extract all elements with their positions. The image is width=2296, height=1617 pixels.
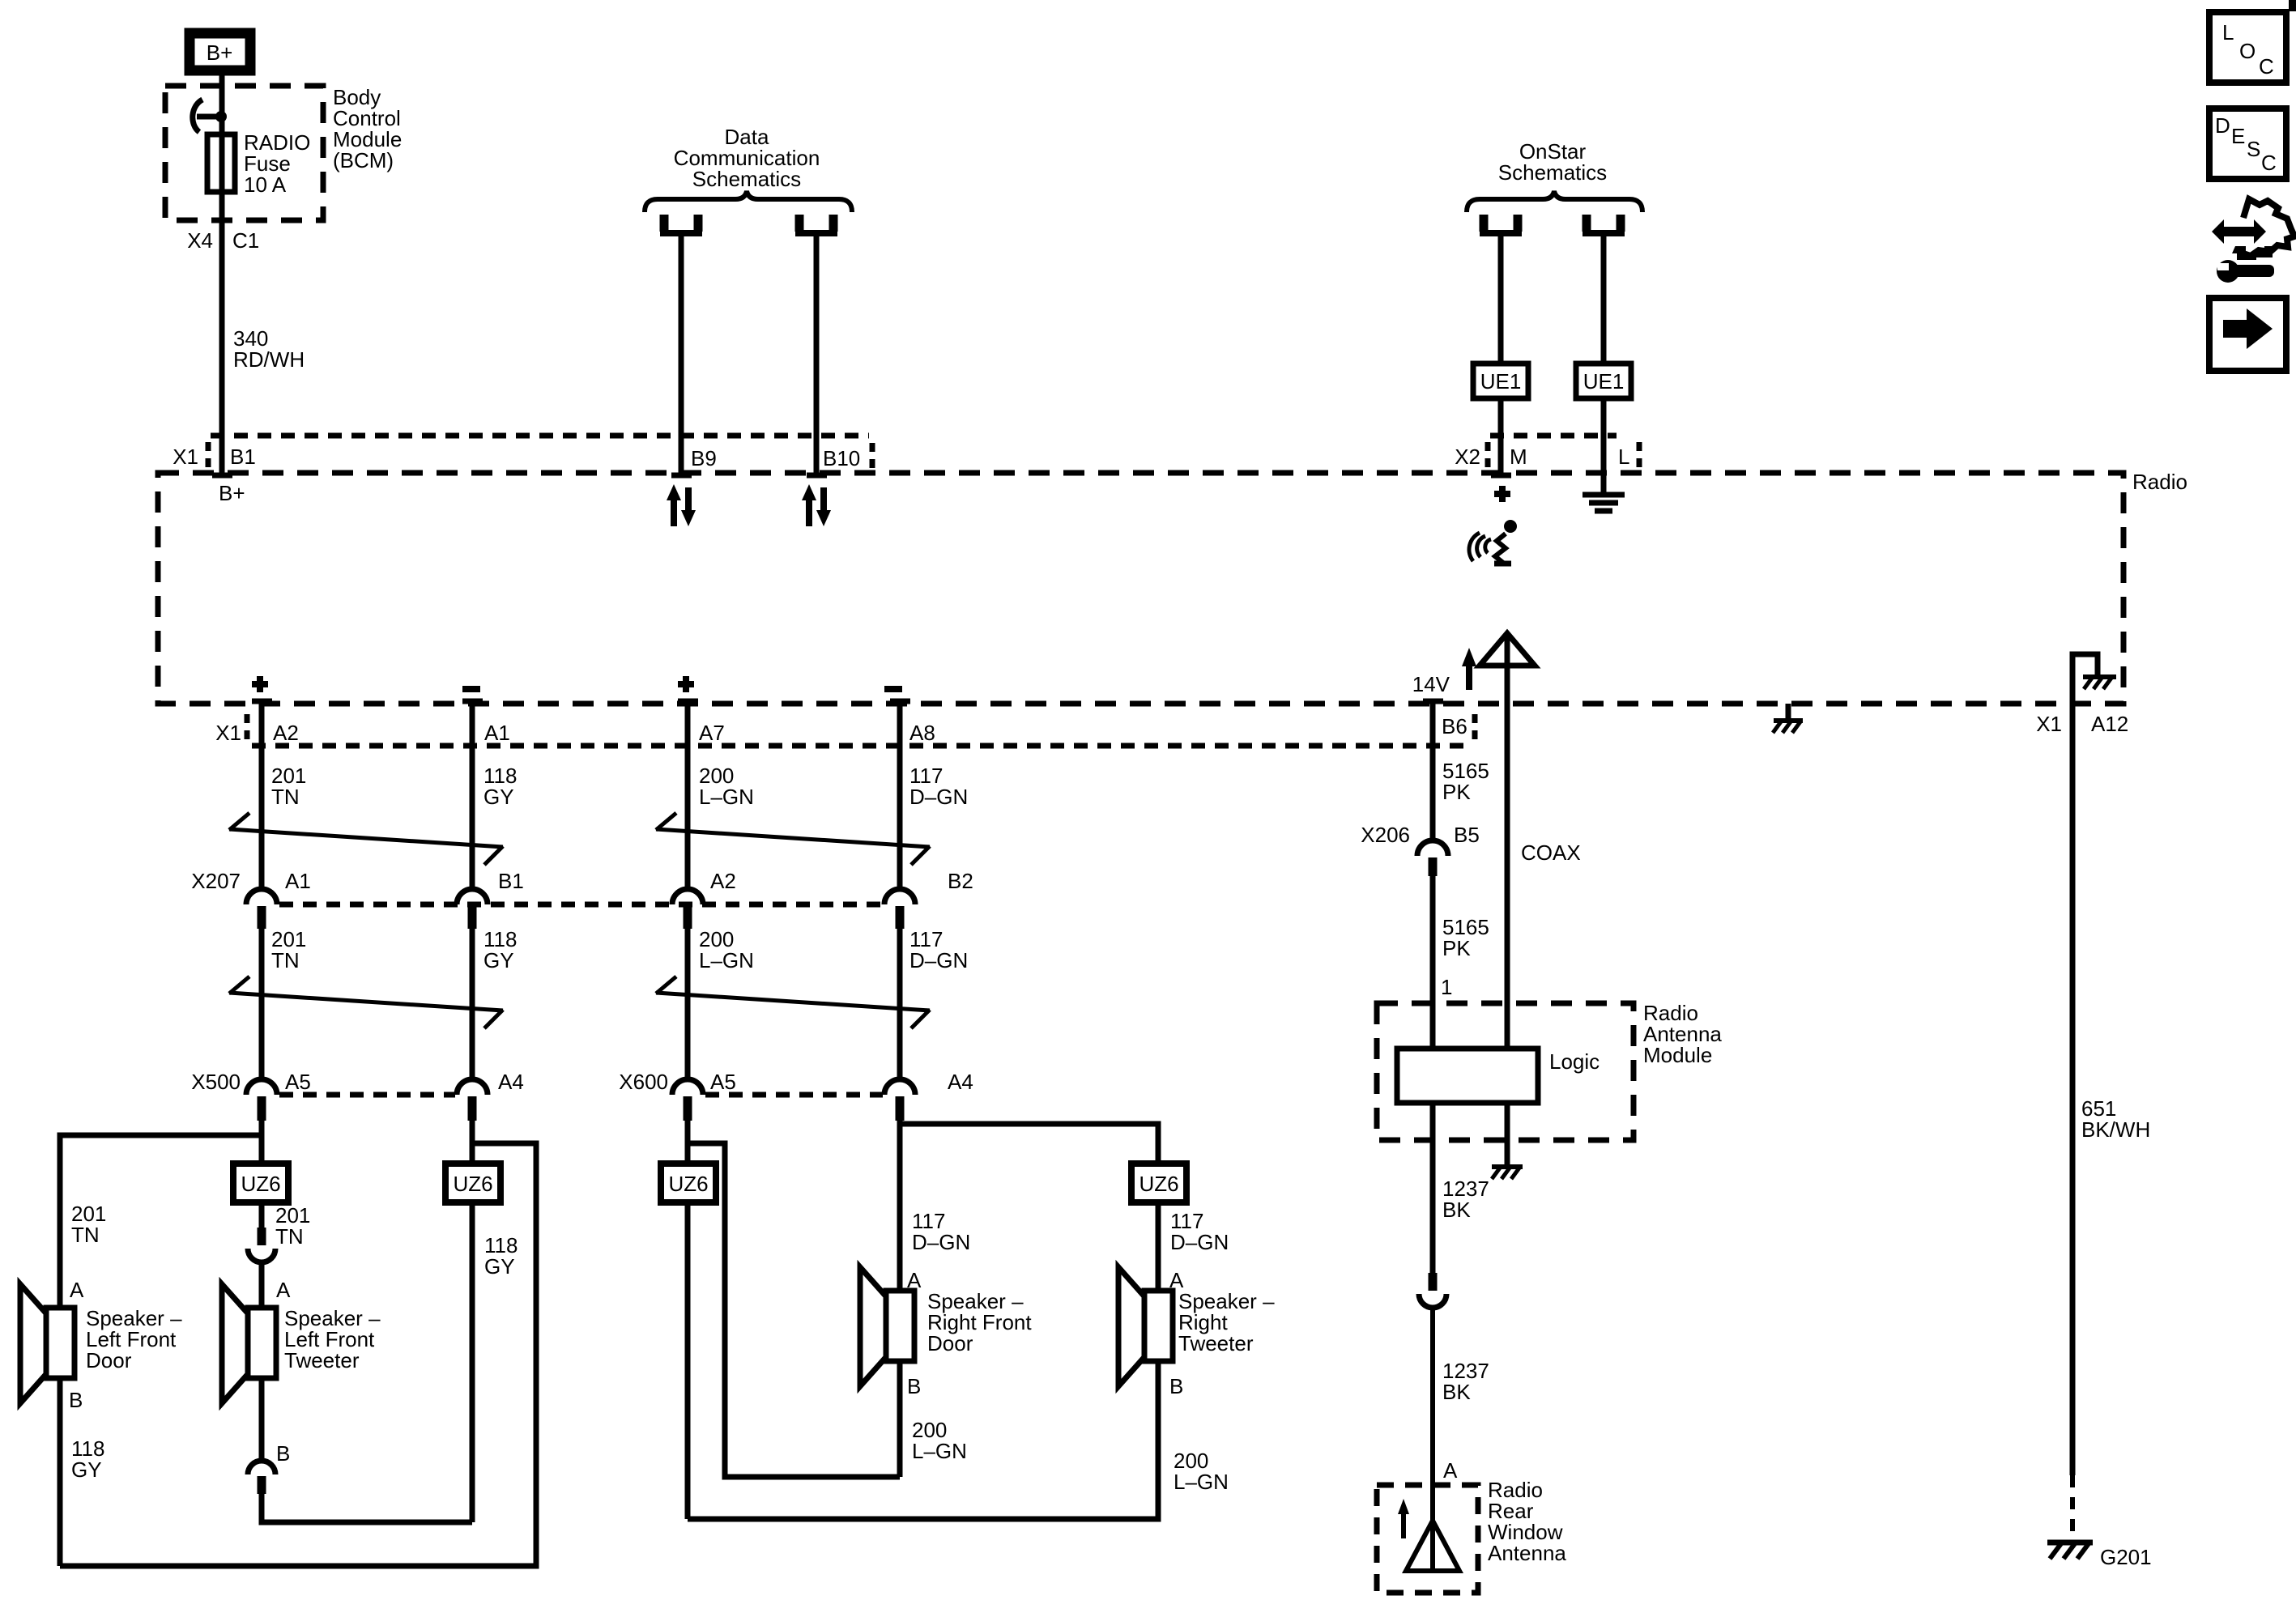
connector X600 comb line (705, 1092, 883, 1098)
wire 5165 PK lower (1430, 876, 1436, 1049)
svg-text:RD/WH: RD/WH (233, 347, 305, 372)
COAX wire from antenna to antenna module logic (1505, 636, 1510, 1049)
connector bump X500-A4 (457, 1079, 488, 1121)
svg-text:D–GN: D–GN (909, 948, 968, 972)
svg-text:Door: Door (927, 1331, 973, 1355)
svg-text:Radio: Radio (2132, 470, 2187, 494)
wire label 200 L-GN row 2 (699, 927, 754, 972)
connector bump X500-A5 (246, 1079, 277, 1121)
inline connector at tweeter B (248, 1461, 275, 1494)
wire UE1 to ground L (1601, 398, 1607, 492)
label RADIO Fuse 10 A (244, 130, 310, 197)
wire 651 BK/WH from A12 (2070, 666, 2076, 1475)
signal arrow in rear window antenna (1398, 1499, 1409, 1538)
BCM internal switch hook (193, 100, 227, 132)
Body Control Module (BCM) dashed box (165, 86, 323, 220)
svg-text:L–GN: L–GN (699, 948, 754, 972)
svg-text:B1: B1 (498, 869, 524, 893)
svg-text:D–GN: D–GN (1170, 1230, 1229, 1254)
svg-text:L: L (1618, 445, 1629, 469)
minus polarity at A8 (884, 686, 902, 692)
bidirectional data arrows at B9 (667, 484, 696, 526)
label Speaker - Left Front Tweeter (284, 1306, 381, 1372)
twisted pair mark right pair row 2 (656, 977, 930, 1028)
wire label 5165 PK upper (1442, 759, 1489, 804)
svg-text:A7: A7 (699, 721, 725, 745)
Radio Antenna Module dashed box (1377, 1003, 1634, 1140)
svg-text:E: E (2231, 124, 2245, 148)
wire label 201 TN (271, 764, 306, 809)
svg-text:A1: A1 (484, 721, 510, 745)
svg-text:X600: X600 (619, 1070, 668, 1094)
label Data Communication Schematics (674, 125, 820, 191)
connector X207 comb line (279, 902, 883, 908)
svg-text:Antenna: Antenna (1488, 1541, 1566, 1565)
wire connector to tweeter (259, 1262, 265, 1308)
svg-text:UZ6: UZ6 (241, 1172, 280, 1196)
connector bump X207-B1 (457, 889, 488, 929)
twisted pair mark left pair row 2 (229, 977, 503, 1028)
connector comb line X1 bottom row (A2 A1 A7 A8 B6) (252, 743, 1470, 749)
svg-text:L–GN: L–GN (699, 785, 754, 809)
Radio dashed box (158, 473, 2123, 704)
svg-text:L–GN: L–GN (912, 1439, 967, 1463)
svg-text:UZ6: UZ6 (668, 1172, 708, 1196)
connector label X1 A12 (2036, 712, 2128, 736)
svg-text:X1: X1 (215, 721, 241, 745)
svg-text:D–GN: D–GN (912, 1230, 970, 1254)
svg-text:(BCM): (BCM) (333, 148, 394, 172)
wire tweeter to B connector (259, 1378, 265, 1461)
pin B6 tee foot (1423, 699, 1443, 704)
svg-text:B: B (907, 1374, 921, 1398)
svg-text:A: A (276, 1278, 291, 1302)
svg-text:X1: X1 (173, 445, 198, 469)
dotted tick right end of X1 bottom comb (1472, 714, 1478, 740)
svg-text:B2: B2 (948, 869, 973, 893)
wire label 200 L-GN (699, 764, 754, 809)
svg-text:M: M (1510, 445, 1527, 469)
svg-text:GY: GY (483, 785, 514, 809)
svg-text:1: 1 (1441, 975, 1452, 999)
antenna symbol inside radio (1480, 633, 1535, 666)
twisted pair mark left pair row 1 (229, 813, 503, 865)
pin B10 tee foot (807, 473, 827, 479)
wire OnStar ground to UE1 (1601, 235, 1607, 364)
wire 118 GY from A4 through UZ6 (470, 1121, 475, 1522)
svg-text:C: C (2259, 54, 2274, 79)
pin M tee foot (1491, 473, 1511, 479)
svg-text:B: B (1169, 1374, 1183, 1398)
wire 200 L-GN from A5 through UZ6 to right tweeter return (685, 1121, 691, 1519)
connector comb line X2 (M L) (1490, 433, 1617, 439)
wire 1237 BK upper (1430, 1103, 1436, 1273)
svg-text:GY: GY (483, 948, 514, 972)
14V supply arrow inside radio (1412, 648, 1476, 696)
antenna element symbol (1406, 1521, 1459, 1571)
svg-text:A: A (70, 1278, 84, 1302)
connector comb line X1 top row (B1 B9 B10) (211, 433, 869, 439)
svg-text:B5: B5 (1454, 823, 1480, 847)
svg-text:Tweeter: Tweeter (1178, 1331, 1254, 1355)
wire 1237 BK lower (1430, 1308, 1435, 1524)
wire branch 117 D-GN to right tweeter (900, 1124, 1158, 1164)
DESC legend box (2209, 109, 2286, 179)
option box UZ6 on right tweeter feed (1131, 1164, 1186, 1202)
wire label 200 L-GN at right door (912, 1418, 967, 1463)
wire UE1 to radio M (1498, 398, 1504, 473)
svg-text:X207: X207 (191, 869, 241, 893)
svg-text:A5: A5 (285, 1070, 311, 1094)
svg-text:B: B (276, 1441, 290, 1466)
wire 5165 PK from B6 (1430, 704, 1436, 841)
svg-text:A8: A8 (909, 721, 935, 745)
svg-text:14V: 14V (1412, 672, 1450, 696)
off-page connector bracket OnStar L (1582, 215, 1625, 233)
wire 201 TN below X207 (259, 929, 265, 1080)
svg-text:BK: BK (1442, 1380, 1471, 1404)
svg-text:A12: A12 (2091, 712, 2128, 736)
wire UZ6 to inline connector (259, 1202, 265, 1228)
svg-text:B9: B9 (691, 446, 717, 470)
pin B1 tee foot (212, 473, 232, 479)
pin A7 tee foot (678, 699, 698, 704)
fuse RADIO Fuse 10 A (207, 134, 235, 192)
wire 201 TN to tweeter branch (259, 1121, 265, 1164)
LOC legend box (2209, 12, 2286, 83)
svg-text:B6: B6 (1442, 714, 1467, 738)
svg-text:A5: A5 (710, 1070, 736, 1094)
chassis ground inside radio right (1773, 704, 1803, 733)
wire to radio B9 (679, 235, 684, 473)
microphone icon (1469, 520, 1517, 564)
label Radio Rear Window Antenna (1488, 1478, 1566, 1565)
connector bump X600-A4 (884, 1079, 915, 1121)
wire label 117 D-GN at right door (912, 1209, 970, 1254)
wire label 340 RD/WH (233, 326, 305, 372)
svg-text:Door: Door (86, 1348, 132, 1372)
wire 117 D-GN from A8 (897, 704, 903, 890)
jump-to-schematic icon (arrow hand wrench) (2212, 199, 2294, 283)
next-page arrow box (2209, 298, 2286, 371)
wire from B+ through BCM fuse to radio B1 (340 RD/WH) (219, 75, 225, 473)
wire right tweeter B return (688, 1361, 1158, 1519)
pin B9 tee foot (671, 473, 692, 479)
pin label L (1618, 442, 1639, 470)
svg-text:X1: X1 (2036, 712, 2062, 736)
svg-text:UZ6: UZ6 (1139, 1172, 1178, 1196)
svg-text:A: A (1443, 1458, 1458, 1483)
wire label 117 D-GN (909, 764, 968, 809)
wire 117 D-GN below X207 (897, 929, 903, 1080)
page corner mark (2289, 0, 2296, 11)
wire to radio B10 (814, 235, 820, 473)
twisted pair mark right pair row 1 (656, 813, 930, 865)
svg-text:COAX: COAX (1521, 840, 1581, 865)
svg-text:GY: GY (484, 1254, 515, 1279)
svg-text:C: C (2261, 151, 2277, 175)
wire branch to left door speaker A (60, 1135, 262, 1566)
wire label 118 GY (483, 764, 517, 809)
speaker Right Tweeter icon (1118, 1267, 1173, 1386)
wire 118 GY below X207 (470, 929, 475, 1080)
option box UE1 (left) (1473, 364, 1528, 398)
wire 118 GY from A1 (470, 704, 475, 890)
svg-text:L: L (2222, 20, 2234, 45)
svg-text:B1: B1 (230, 445, 256, 469)
label Radio Antenna Module (1643, 1001, 1722, 1067)
connector label X2 (1455, 442, 1488, 470)
pin A2 tee foot (252, 699, 272, 704)
wire 117 D-GN from A4 to right door speaker A (897, 1121, 903, 1291)
label Speaker - Right Tweeter (1178, 1289, 1275, 1355)
svg-text:A4: A4 (498, 1070, 524, 1094)
wire label 651 BK/WH (2081, 1096, 2150, 1142)
svg-text:PK: PK (1442, 936, 1471, 960)
pin A8 tee foot (890, 699, 910, 704)
svg-text:TN: TN (271, 948, 300, 972)
wire logic to antenna module ground (1505, 1103, 1510, 1167)
option box UE1 (right) (1576, 364, 1631, 398)
wire label 118 GY row 2 (483, 927, 517, 972)
wire label 5165 PK lower (1442, 915, 1489, 960)
speaker Left Front Door icon (20, 1284, 75, 1403)
chassis ground at antenna module (1492, 1167, 1523, 1179)
svg-text:PK: PK (1442, 780, 1471, 804)
pin label X4 C1 at BCM connector (187, 228, 259, 253)
svg-text:B10: B10 (823, 446, 860, 470)
svg-text:Tweeter: Tweeter (284, 1348, 360, 1372)
Logic box (1397, 1049, 1538, 1103)
off-page connector bracket B10 (795, 215, 837, 233)
svg-text:Schematics: Schematics (1498, 160, 1607, 185)
inline connector on 1237 BK (1419, 1273, 1446, 1308)
dotted tick left end of X1 bottom comb (245, 714, 250, 740)
svg-text:BK: BK (1442, 1198, 1471, 1222)
B+ power terminal box (190, 33, 250, 70)
svg-text:X4: X4 (187, 228, 213, 253)
wire label 118 GY at left door (71, 1436, 104, 1482)
dashed wire to G201 (2070, 1475, 2075, 1540)
speaker Right Front Door icon (860, 1267, 914, 1386)
wire UZ6 to right tweeter A (1156, 1202, 1161, 1291)
plus polarity at microphone input (1494, 486, 1510, 502)
connector label X206 B5 (1361, 823, 1480, 847)
plus polarity at A7 (678, 676, 694, 692)
brace over data communication wires (645, 191, 852, 212)
svg-text:A2: A2 (273, 721, 299, 745)
wire 200 L-GN below X207 (685, 929, 691, 1080)
wire label 201 TN at left door (71, 1202, 106, 1247)
option box UZ6 on left tweeter feed (233, 1164, 288, 1202)
svg-text:UZ6: UZ6 (453, 1172, 492, 1196)
off-page connector bracket B9 (660, 215, 702, 233)
off-page connector bracket OnStar M (1480, 215, 1522, 233)
earth ground at OnStar L (1582, 495, 1625, 511)
svg-text:TN: TN (275, 1224, 304, 1249)
option box UZ6 on 200 L-GN (661, 1164, 716, 1202)
connector bump X207-B2 (884, 889, 915, 929)
wire label 1237 BK upper (1442, 1177, 1489, 1222)
svg-text:B+: B+ (219, 481, 245, 505)
connector bump X207-A1 (246, 889, 277, 929)
inline connector X206 (1417, 840, 1448, 876)
option box UZ6 on 118 GY (445, 1164, 501, 1202)
svg-text:X2: X2 (1455, 445, 1480, 469)
label OnStar Schematics (1498, 139, 1607, 185)
connector bump X600-A5 (672, 1079, 703, 1121)
dotted tick right end of X1 top comb (870, 443, 875, 469)
wire label 200 L-GN at right tweeter (1174, 1449, 1229, 1494)
svg-text:UE1: UE1 (1583, 369, 1625, 394)
connector X500 comb line (279, 1092, 455, 1098)
svg-text:Logic: Logic (1549, 1049, 1600, 1074)
wire 200 L-GN jog to right door speaker B (688, 1143, 900, 1477)
svg-text:D–GN: D–GN (909, 785, 968, 809)
speaker Left Front Tweeter icon (222, 1284, 276, 1403)
chassis ground at A12 hook (2083, 677, 2116, 689)
svg-text:O: O (2239, 39, 2256, 63)
svg-text:X206: X206 (1361, 823, 1410, 847)
svg-text:10 A: 10 A (244, 172, 287, 197)
minus polarity at A1 (462, 686, 480, 692)
chassis ground G201 (2047, 1543, 2093, 1559)
wire label 1237 BK lower (1442, 1359, 1489, 1404)
svg-text:Schematics: Schematics (692, 167, 801, 191)
label Speaker - Left Front Door (86, 1306, 182, 1372)
svg-text:A4: A4 (948, 1070, 973, 1094)
svg-text:X500: X500 (191, 1070, 241, 1094)
svg-text:S: S (2247, 137, 2260, 161)
svg-text:C1: C1 (232, 228, 259, 253)
wire label 117 D-GN at right tweeter (1170, 1209, 1229, 1254)
svg-text:B+: B+ (207, 40, 233, 65)
wire 118 GY return jog to outer loop (60, 1143, 536, 1566)
svg-text:L–GN: L–GN (1174, 1470, 1229, 1494)
wire label 117 D-GN row 2 (909, 927, 968, 972)
svg-text:B: B (69, 1388, 83, 1412)
wire label 201 TN at tweeter (275, 1203, 310, 1249)
svg-text:BK/WH: BK/WH (2081, 1117, 2150, 1142)
svg-text:Module: Module (1643, 1043, 1712, 1067)
svg-text:GY: GY (71, 1457, 102, 1482)
label Speaker - Right Front Door (927, 1289, 1032, 1355)
svg-text:TN: TN (71, 1223, 100, 1247)
wire right door B down (897, 1361, 903, 1477)
Radio Rear Window Antenna dashed box (1377, 1485, 1478, 1593)
wire 200 L-GN from A7 (685, 704, 691, 890)
wire A12 internal ground hook (2072, 654, 2098, 675)
connector bump X207-A2 (672, 889, 703, 929)
svg-text:UE1: UE1 (1480, 369, 1522, 394)
svg-text:G201: G201 (2100, 1545, 2152, 1569)
wire label 201 TN row 2 (271, 927, 306, 972)
svg-text:TN: TN (271, 785, 300, 809)
pin A1 tee foot (462, 699, 483, 704)
bidirectional data arrows at B10 (802, 484, 831, 526)
inline connector at tweeter A (248, 1228, 275, 1262)
plus polarity at A2 (252, 676, 268, 692)
connector label X1 B1 at radio (173, 442, 256, 470)
wire label 118 GY below UZ6 (484, 1233, 518, 1279)
label Body Control Module (BCM) (333, 85, 402, 172)
svg-text:D: D (2215, 113, 2230, 138)
wire OnStar voice to UE1 (1498, 235, 1504, 364)
svg-text:A1: A1 (285, 869, 311, 893)
wire tweeter B to 118 GY return (262, 1494, 472, 1522)
svg-text:A2: A2 (710, 869, 736, 893)
brace over OnStar wires (1467, 191, 1642, 212)
wire 201 TN from A2 (259, 704, 265, 890)
